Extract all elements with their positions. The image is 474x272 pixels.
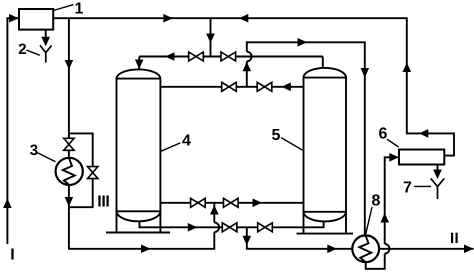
arrow row4 right <box>188 223 198 232</box>
valve V10 row4 right <box>258 223 265 232</box>
valve V4 row1 right <box>221 52 228 61</box>
arrow drain 6 down <box>433 170 442 180</box>
column 5 base line <box>297 233 354 235</box>
svg-text:II: II <box>450 230 459 247</box>
line hop vertical over row1 <box>247 52 252 62</box>
arrow drop HX3 down <box>65 60 74 70</box>
label 3 leader <box>37 153 56 162</box>
heat exchanger 8 circle <box>352 235 379 262</box>
svg-text:I: I <box>10 247 14 264</box>
svg-text:1: 1 <box>75 0 84 17</box>
arrow top header left <box>239 14 249 23</box>
arrow recycle up <box>403 63 412 73</box>
arrow into box 1 <box>9 14 19 23</box>
wire box 1 drain <box>45 30 47 45</box>
wire box 6 drain <box>437 165 439 178</box>
arrow II right <box>464 245 474 254</box>
svg-text:3: 3 <box>30 142 38 159</box>
adsorber column 5 shell <box>304 68 347 234</box>
valve V3 row1 left <box>189 52 196 61</box>
valve V8 row3 right <box>224 198 231 207</box>
svg-text:4: 4 <box>182 133 191 150</box>
wire into column 4 top <box>138 57 140 70</box>
wire row4 tee down to HX8 <box>247 227 352 249</box>
vessel U2 box 6 <box>399 150 444 165</box>
arrow down to HX8 <box>361 68 370 78</box>
wire drop to HX3 <box>68 18 70 138</box>
arrow top header right <box>163 14 173 23</box>
arrow drain 1 down <box>41 37 50 47</box>
valve V6 row2 right <box>257 82 264 91</box>
wire row1 top inlet header <box>139 56 323 58</box>
label 1 leader <box>53 5 73 11</box>
wire riser to row3 <box>213 203 215 223</box>
wire row3 bottom inlet header <box>160 202 303 204</box>
wire into column 5 top <box>322 57 324 69</box>
heat exchanger 3 circle <box>56 158 83 185</box>
arrow into box 6 <box>389 153 399 162</box>
heat exchanger 3 zigzag <box>63 159 75 185</box>
label 2 leader <box>27 50 40 55</box>
svg-text:8: 8 <box>372 192 381 209</box>
wire feed line I (left vertical + into box 1) <box>7 18 19 244</box>
arrow tee down <box>243 236 252 246</box>
wire row4 bottom outlet header with column steps <box>140 221 324 228</box>
svg-text:7: 7 <box>403 180 412 197</box>
column 4 base line <box>106 232 170 234</box>
wire riser to box 6 <box>385 157 399 244</box>
arrow into column 4 <box>135 60 144 70</box>
arrow feed up <box>3 199 12 209</box>
label 5 leader <box>281 138 302 150</box>
wire product II out <box>379 248 473 250</box>
wire product riser y42 across and down to HX8 <box>247 42 365 235</box>
vent symbol 7 <box>431 178 445 199</box>
arrow riser up <box>210 205 219 215</box>
line hop vertical over row4 <box>214 223 219 233</box>
wire HX3 outlet to bottom left header, corner up to hop <box>69 185 214 249</box>
valve V7 row3 left <box>191 198 198 207</box>
arrow into HX8 right <box>327 245 337 254</box>
svg-text:III: III <box>97 193 109 210</box>
label 4 leader <box>161 143 181 151</box>
adsorber column 4 shell <box>117 69 161 232</box>
line hop vertical over II line <box>385 244 390 254</box>
vessel U1 box 1 <box>19 9 53 30</box>
wire HX8 bottom loop <box>366 254 385 269</box>
valve V9 row4 left <box>222 223 229 232</box>
wire row2 top outlet header <box>160 86 303 88</box>
column 4 bottom dish <box>117 211 161 221</box>
svg-text:2: 2 <box>18 41 26 58</box>
arrow drop down <box>206 34 215 44</box>
valve V5 row2 left <box>222 82 229 91</box>
arrow bottom-left header right <box>141 245 151 254</box>
svg-text:5: 5 <box>272 127 281 144</box>
arrow y42 right <box>298 38 308 47</box>
heat exchanger 8 zigzag <box>359 236 371 262</box>
arrow row3 right <box>253 199 263 208</box>
wire valve to HX3 <box>68 150 70 158</box>
wire riser from row2 <box>246 61 248 87</box>
label 6 leader <box>387 139 399 147</box>
valve V1 above HX3 <box>64 138 74 144</box>
label 8 leader <box>366 207 372 234</box>
wire HX3 bypass lower <box>69 179 93 208</box>
wire top header + right recycle down + y133 + into box 6 right <box>53 18 454 155</box>
vent symbol 2 <box>40 45 52 62</box>
arrow riser up <box>243 62 252 72</box>
arrow row2 left <box>281 83 291 92</box>
svg-text:6: 6 <box>379 126 388 143</box>
valve V2 bypass <box>88 167 98 173</box>
wire drop from top header to row1 <box>210 18 212 56</box>
arrow below HX3 down <box>65 197 74 207</box>
arrow row1 left <box>165 52 175 61</box>
label 7 leader <box>414 185 431 187</box>
column 5 bottom dish <box>304 212 347 222</box>
arrow y133 left <box>419 129 429 138</box>
arrow riser up <box>380 213 389 223</box>
wire HX3 bypass upper <box>69 133 93 166</box>
